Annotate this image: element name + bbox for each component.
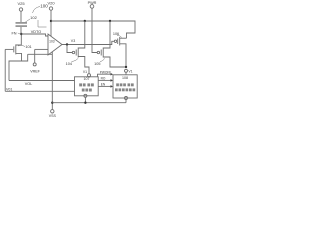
wire PWOFF — [98, 74, 112, 77]
svg-text:VSS: VSS — [49, 114, 57, 118]
wire RO — [98, 79, 111, 81]
wire FN to op-amp input — [21, 34, 48, 36]
node FN dot — [20, 33, 22, 35]
wire VREF vertical — [34, 49, 36, 63]
text block box 108 line 2 — [115, 88, 118, 91]
wire V20 down to top bus — [50, 10, 52, 36]
svg-text:103: 103 — [49, 40, 55, 44]
wire FN node down to transistor 101 drain — [16, 34, 21, 45]
terminal PWR — [90, 5, 94, 9]
text block box 108 line 1 — [116, 83, 119, 86]
svg-text:104: 104 — [66, 62, 72, 66]
terminal VREF — [33, 63, 36, 66]
leader 101 — [18, 45, 25, 46]
node dot bus/105 — [109, 20, 111, 22]
wire op-amp inverting input — [35, 48, 48, 50]
svg-text:102: 102 — [30, 15, 37, 20]
svg-text:V25: V25 — [17, 1, 25, 6]
arrowhead EN — [111, 85, 114, 88]
text block box 107 line 2 — [82, 89, 85, 92]
svg-text:105: 105 — [94, 62, 100, 66]
arrowhead PWOFF — [111, 73, 114, 76]
wire EN — [98, 85, 111, 87]
transistor Q105 — [97, 51, 99, 53]
terminal VSS — [51, 110, 54, 113]
terminal V20 — [49, 7, 52, 10]
svg-text:108: 108 — [122, 76, 128, 80]
svg-text:V1: V1 — [83, 70, 87, 74]
svg-text:VOL: VOL — [25, 82, 33, 86]
node dot VSS — [51, 102, 53, 104]
leader 105 — [100, 58, 104, 61]
terminal bottom 108 — [125, 97, 128, 100]
leader 104 — [72, 58, 79, 61]
svg-text:106: 106 — [113, 32, 119, 36]
node dot V3 — [66, 43, 68, 45]
wire VSS vertical — [51, 52, 53, 110]
wire feedback under op-amp — [28, 53, 53, 55]
wire bottom bus — [52, 102, 126, 104]
wire VOL — [9, 80, 75, 82]
wire 107 to bottom bus — [84, 97, 86, 102]
svg-text:FN: FN — [11, 31, 16, 35]
svg-text:101: 101 — [25, 45, 31, 49]
svg-text:RO: RO — [101, 76, 106, 80]
transistor Q101 — [13, 46, 15, 52]
text block box 107 line 1 — [79, 83, 82, 86]
node dot 107/bus — [84, 102, 86, 104]
wire source branch to VOL — [9, 61, 22, 81]
capacitor C102 — [16, 22, 28, 24]
svg-text:V01: V01 — [6, 88, 12, 92]
terminal V1 left — [88, 74, 91, 77]
leader 100 — [33, 7, 41, 14]
terminal V1 right — [125, 69, 128, 72]
terminal V25 — [19, 8, 22, 11]
svg-text:V1: V1 — [128, 70, 132, 74]
wire V1 into box 108 — [125, 72, 127, 75]
terminal bottom 107 — [84, 94, 87, 97]
leader 102 — [26, 19, 31, 22]
leader line near 102 — [38, 20, 47, 27]
svg-text:V3: V3 — [71, 39, 75, 43]
transistor Q104 — [67, 45, 72, 53]
wire V25 to capacitor — [20, 12, 22, 23]
node dot bus/104 — [84, 20, 86, 22]
svg-text:VDTO: VDTO — [31, 30, 42, 34]
wire capacitor to FN node — [20, 27, 22, 34]
op-amp 103 — [48, 34, 62, 55]
leader FN — [18, 33, 20, 34]
wire 108 to bottom bus — [125, 100, 127, 103]
svg-text:EN: EN — [101, 82, 106, 86]
wire V01 — [5, 90, 74, 92]
box 107 — [75, 77, 99, 96]
wire top bus — [51, 21, 135, 38]
wire PWR down to gate of 105 — [92, 8, 97, 52]
svg-text:V20: V20 — [47, 1, 55, 6]
node dot V1 right — [125, 66, 127, 68]
leader 106 — [117, 36, 122, 38]
arrowhead RO — [111, 79, 114, 82]
svg-text:VREF: VREF — [30, 69, 40, 73]
node dot V20/bus — [50, 20, 52, 22]
wire gate 101 down to V01 — [4, 49, 6, 91]
svg-text:107: 107 — [84, 77, 90, 81]
svg-text:PWOFF: PWOFF — [100, 71, 112, 75]
svg-text:PWR: PWR — [88, 1, 97, 5]
box 108 — [113, 75, 137, 98]
wire op-amp output to V3 — [62, 41, 114, 44]
transistor Q106 — [114, 40, 116, 42]
